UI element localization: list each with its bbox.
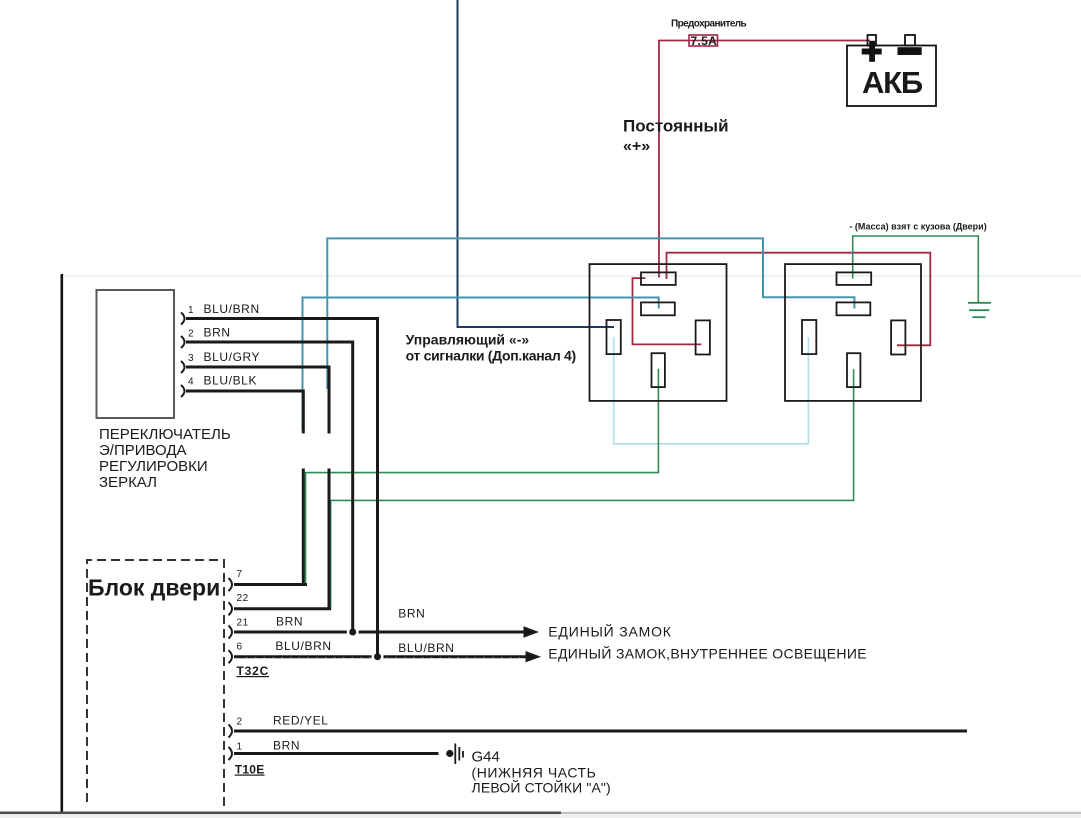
svg-text:BRN: BRN (398, 607, 425, 621)
battery plus terminal mark (862, 41, 922, 62)
svg-text:7.5А: 7.5А (691, 34, 718, 48)
svg-text:ЕДИНЫЙ ЗАМОК,ВНУТРЕННЕЕ ОСВЕЩЕ: ЕДИНЫЙ ЗАМОК,ВНУТРЕННЕЕ ОСВЕЩЕНИЕ (548, 644, 867, 661)
battery minus terminal mark (898, 47, 922, 55)
svg-text:ЗЕРКАЛ: ЗЕРКАЛ (99, 474, 157, 491)
svg-text:Блок двери: Блок двери (88, 574, 220, 600)
mirror switch label (99, 426, 231, 491)
svg-text:Управляющий «-»: Управляющий «-» (406, 332, 530, 348)
door pin chevrons (229, 578, 233, 760)
svg-text:4: 4 (188, 377, 194, 388)
door pin labels (237, 569, 332, 753)
relay K1 bottom pin (652, 353, 665, 387)
svg-text:Постоянный: Постоянный (623, 117, 729, 136)
svg-text:BRN: BRN (204, 326, 231, 340)
svg-text:BLU/GRY: BLU/GRY (204, 350, 261, 364)
svg-text:BRN: BRN (276, 614, 303, 628)
svg-text:ПЕРЕКЛЮЧАТЕЛЬ: ПЕРЕКЛЮЧАТЕЛЬ (99, 426, 231, 443)
wire: door pin7 line with lower stub of wire4 (234, 469, 307, 585)
svg-text:(НИЖНЯЯ ЧАСТЬ: (НИЖНЯЯ ЧАСТЬ (472, 765, 597, 781)
ground symbol (968, 303, 991, 317)
svg-text:2: 2 (237, 717, 243, 728)
svg-text:BRN: BRN (273, 739, 300, 753)
wire 3 BLU/GRY switch-side stub (cut) (186, 367, 329, 434)
svg-text:T32C: T32C (237, 664, 270, 678)
wire: dark red relay K1 top pin to relay K2 right pin (667, 253, 931, 346)
wire: green relay K2 bottom pin to door pin22 line (331, 369, 854, 609)
wire: teal from switch wire3 stub to relay K2 pin2 (327, 238, 854, 389)
svg-text:ЕДИНЫЙ ЗАМОК: ЕДИНЫЙ ЗАМОК (548, 623, 671, 640)
svg-text:- (Масса) взят с кузова (Двери: - (Масса) взят с кузова (Двери) (849, 222, 986, 232)
svg-text:BLU/BRN: BLU/BRN (275, 639, 331, 653)
junction dot pin21/wire2 (349, 629, 356, 636)
switch pin chevrons (181, 313, 185, 398)
svg-text:1: 1 (188, 305, 194, 316)
svg-text:2: 2 (188, 329, 194, 340)
fuse F 7.5A (689, 35, 718, 46)
battery AKB box (847, 35, 936, 106)
svg-text:7: 7 (237, 569, 243, 580)
relay K1 top pin (641, 272, 676, 285)
relay K2 top pin (837, 272, 872, 285)
wire: teal from switch wire4 stub to relay K1 pin2 (303, 298, 659, 431)
svg-text:ЛЕВОЙ СТОЙКИ "А"): ЛЕВОЙ СТОЙКИ "А") (472, 779, 611, 796)
svg-text:21: 21 (237, 617, 249, 628)
svg-text:от сигналки (Доп.канал 4): от сигналки (Доп.канал 4) (406, 348, 576, 364)
wire: dark red internal jumper relay K1 (633, 278, 702, 344)
arrow head pin6 (526, 651, 542, 662)
switch pin labels (188, 302, 260, 388)
relay K2 box (785, 264, 921, 401)
wire: door pin22 line with lower stub of wire3 (234, 469, 331, 609)
relay K1 pin2 (641, 302, 675, 315)
wire: green ground (Massa) to relay K2 top pin and chassis ground (853, 236, 979, 303)
wire 2 BRN from switch to junction on pin21 line (186, 342, 353, 632)
wire: door pin1 BRN line to G44 (234, 752, 439, 755)
svg-text:1: 1 (237, 742, 243, 753)
wire 4 BLU/BLK switch-side stub (cut) (186, 391, 303, 434)
svg-text:G44: G44 (472, 749, 500, 766)
bottom page edge band (0, 812, 561, 815)
relay K1 left pin (607, 320, 621, 354)
svg-text:Э/ПРИВОДА: Э/ПРИВОДА (99, 442, 187, 459)
wire 1 BLU/BRN from switch to junction on pin6 line (186, 319, 378, 657)
svg-text:«+»: «+» (623, 138, 650, 155)
wire: green relay K1 bottom pin to door pin7 line (306, 369, 659, 585)
svg-text:3: 3 (188, 353, 194, 364)
relay K2 right pin (891, 320, 905, 354)
svg-text:22: 22 (237, 593, 249, 604)
junction dot pin6/wire1 (374, 653, 381, 660)
mirror switch connector box (97, 290, 175, 418)
faint scan artifact line (63, 275, 1081, 277)
svg-text:BLU/BLK: BLU/BLK (204, 374, 258, 388)
svg-text:РЕГУЛИРОВКИ: РЕГУЛИРОВКИ (99, 458, 208, 475)
wire: door pin6 BLU/BRN line to arrow (234, 655, 527, 658)
arrow head pin21 (524, 626, 540, 637)
relay K1 box (590, 264, 727, 401)
svg-text:BLU/BRN: BLU/BRN (398, 641, 454, 655)
svg-text:Предохранитель: Предохранитель (671, 19, 746, 30)
svg-text:6: 6 (237, 642, 243, 653)
svg-text:АКБ: АКБ (862, 65, 923, 100)
wire: door pin2 RED/YEL line (234, 730, 967, 733)
wire: door pin21 BRN line to arrow (234, 631, 525, 634)
G44 splice symbol (446, 744, 463, 765)
relay K1 right pin (696, 320, 710, 354)
relay K2 left pin (802, 320, 816, 354)
svg-text:BLU/BRN: BLU/BRN (204, 302, 260, 316)
svg-text:RED/YEL: RED/YEL (273, 714, 329, 728)
wire: signal alarm control (navy) from top to relay K1 left pin (458, 0, 615, 327)
wire: light cyan relay K1 left pin to relay K2 left pin (614, 337, 809, 444)
left border vertical line (60, 274, 63, 812)
svg-text:T10E: T10E (235, 763, 265, 777)
wire: dark red from fuse down to relay K1 top pin (659, 41, 870, 278)
door module dashed box (87, 560, 224, 806)
relay K2 pin2 (837, 302, 871, 315)
relay K2 bottom pin (847, 353, 860, 387)
